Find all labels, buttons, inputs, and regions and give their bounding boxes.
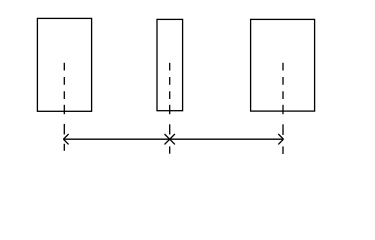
rectangle 3 (right block outline)	[251, 19, 315, 111]
centerline 3 (dashed vertical axis of rectangle 3)	[282, 63, 284, 154]
rectangle 1 (left block outline)	[37, 18, 91, 111]
arrowhead middle (two opposed open arrows forming X at centerline 2)	[165, 134, 175, 144]
arrowhead right (open arrow pointing right at centerline 3)	[278, 134, 283, 144]
dimension line (horizontal, spanning centerline 1 to centerline 3)	[63, 138, 283, 140]
rectangle 2 (middle narrow block outline)	[157, 19, 183, 110]
arrowhead left (open arrow pointing left at centerline 1)	[63, 134, 68, 144]
centerline 1 (dashed vertical axis of rectangle 1)	[63, 63, 65, 151]
centerline 2 (dashed vertical axis of rectangle 2)	[169, 63, 171, 154]
